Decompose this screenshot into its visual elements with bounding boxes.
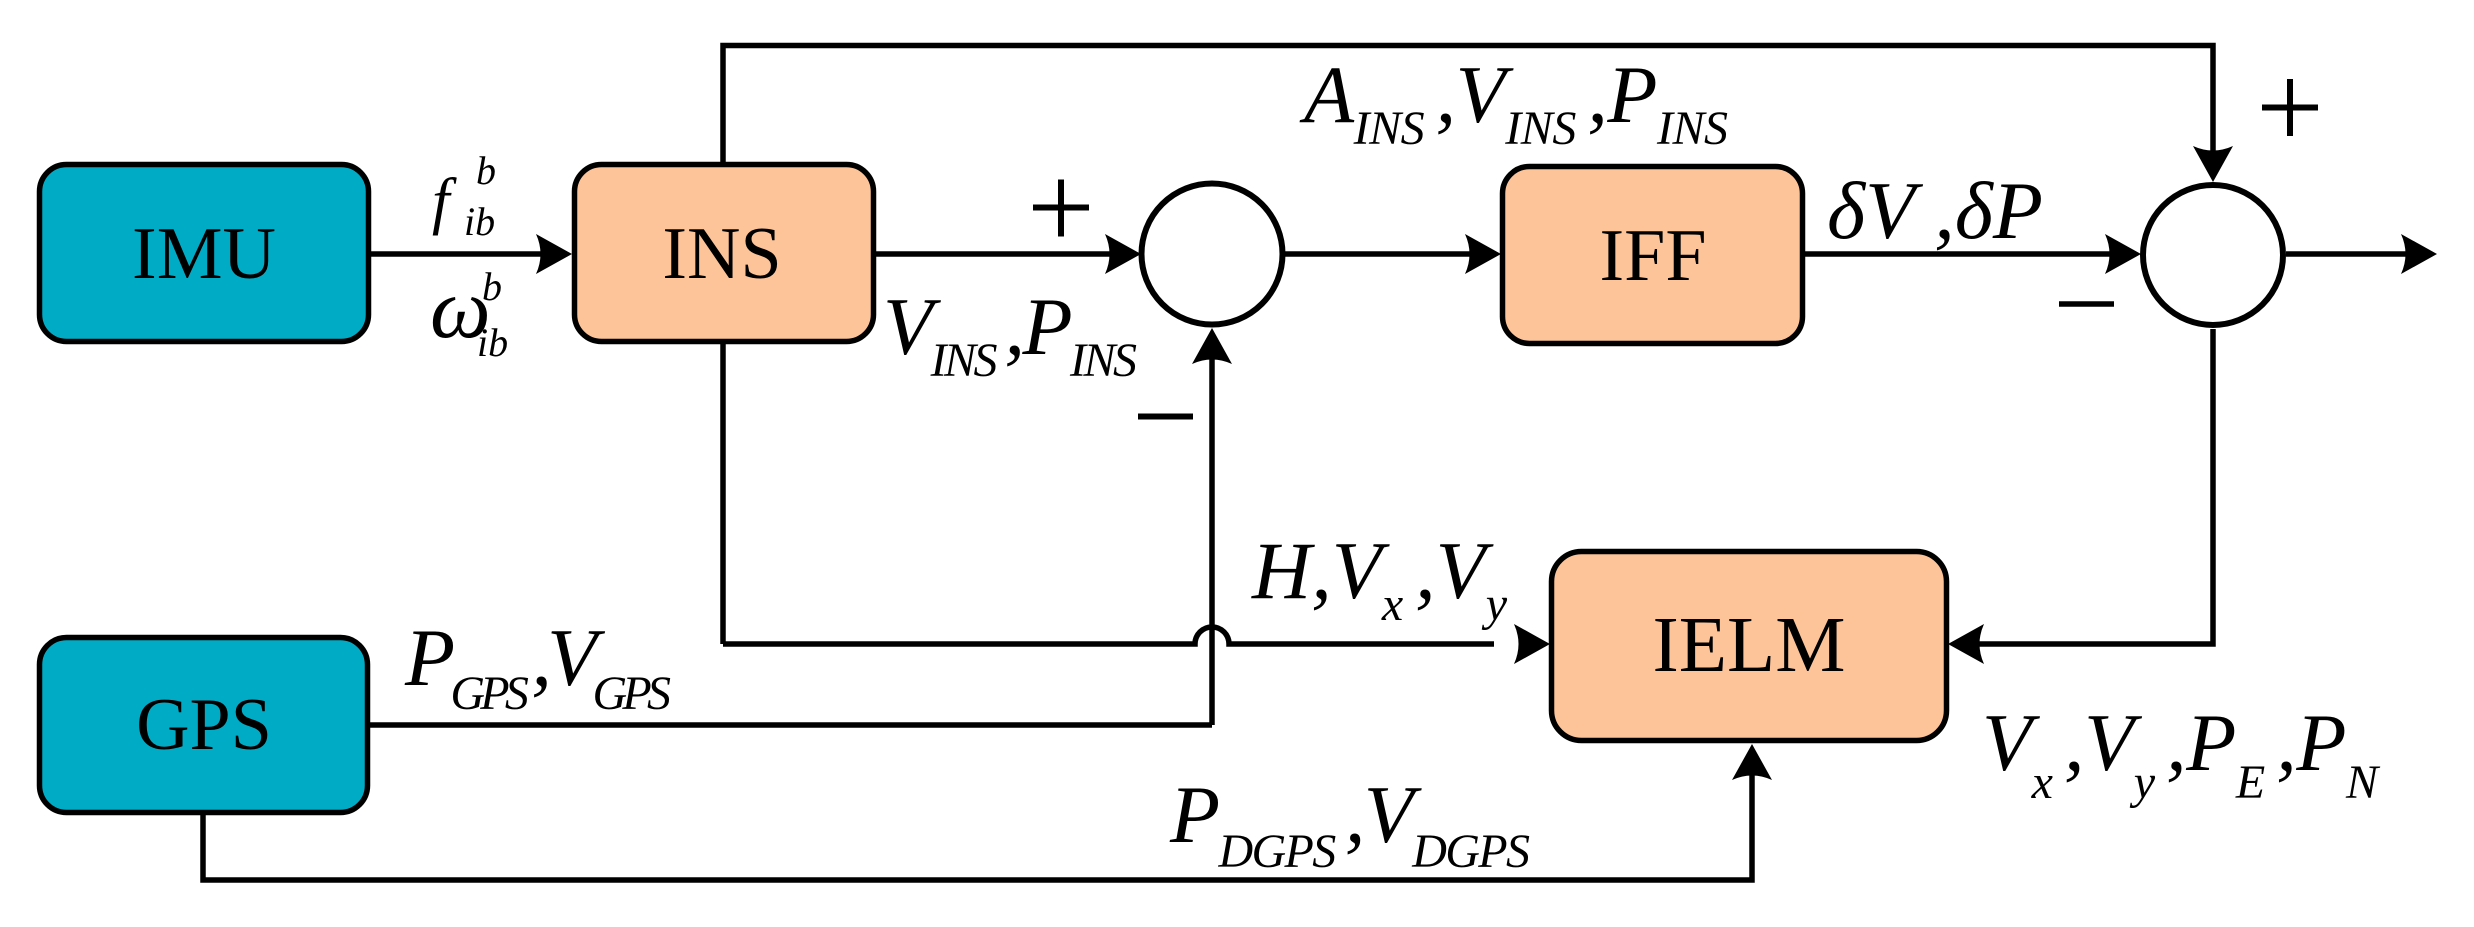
svg-text:H,Vx ,Vy: H,Vx ,Vy: [1251, 525, 1508, 631]
block GPS: [40, 638, 368, 813]
arrowhead into S1 bottom: [1192, 328, 1232, 364]
block IFF: [1503, 167, 1803, 344]
plus sign at S2: [2262, 79, 2318, 136]
arrowhead into summing node S2 left: [2105, 234, 2141, 274]
svg-text:IELM: IELM: [1652, 602, 1845, 689]
wire IFF to summing node S2: [1805, 251, 2112, 257]
arrowhead into IFF: [1465, 234, 1501, 274]
svg-text:Vx ,Vy ,PE ,PN: Vx ,Vy ,PE ,PN: [1982, 697, 2381, 809]
svg-text:ib: ib: [464, 199, 495, 244]
minus sign at S1: [1138, 414, 1193, 420]
svg-text:PGPS ,VGPS: PGPS ,VGPS: [404, 612, 671, 720]
wire IMU to INS: [371, 251, 545, 257]
plus sign at S1: [1033, 180, 1089, 237]
block IELM: [1552, 552, 1947, 741]
block INS: [575, 165, 874, 342]
wire INS top feedback to S2 top: [723, 46, 2213, 164]
wire INS to summing node S1: [876, 251, 1112, 257]
svg-text:IFF: IFF: [1600, 215, 1707, 297]
label V_INS, P_INS: [883, 281, 1137, 387]
svg-text:ib: ib: [477, 320, 508, 365]
wire GPS bottom to IELM bottom: [203, 771, 1752, 880]
arrowhead into S2 top: [2193, 146, 2233, 182]
label P_GPS, V_GPS: [404, 612, 671, 720]
svg-text:b: b: [476, 148, 496, 193]
svg-text:VINS ,PINS: VINS ,PINS: [883, 281, 1137, 387]
wire S1 to IFF: [1285, 251, 1472, 257]
arrowhead into IELM right: [1948, 624, 1984, 664]
svg-text:f: f: [432, 166, 457, 236]
label omega_ib^b: [430, 260, 508, 365]
wire INS bottom to IELM left (with hop over vertical wire): [723, 343, 1494, 644]
wire S2 bottom to IELM right: [1977, 329, 2213, 644]
summing node S2: [2143, 185, 2283, 325]
arrowhead into IELM bottom: [1732, 744, 1772, 780]
wire GPS to S1 bottom (minus input): [370, 356, 1212, 725]
arrowhead output: [2401, 234, 2437, 274]
svg-text:b: b: [482, 264, 502, 309]
svg-text:AINS ,VINS ,PINS: AINS ,VINS ,PINS: [1299, 49, 1728, 155]
svg-text:δV ,δP: δV ,δP: [1827, 165, 2043, 256]
svg-text:INS: INS: [662, 213, 781, 295]
summing node S1: [1142, 184, 1283, 325]
wire S2 to output: [2286, 251, 2410, 257]
arrowhead into IELM left: [1514, 624, 1550, 664]
svg-text:IMU: IMU: [132, 213, 276, 295]
block IMU: [40, 165, 369, 342]
svg-text:GPS: GPS: [136, 684, 272, 766]
arrowhead into summing node S1: [1105, 234, 1141, 274]
label P_DGPS, V_DGPS: [1169, 769, 1530, 878]
label H, V_x, V_y: [1251, 525, 1508, 631]
label dV, dP: [1827, 165, 2043, 256]
label V_x, V_y, P_E, P_N: [1982, 697, 2381, 809]
minus sign at S2: [2059, 301, 2114, 307]
label f_ib^b: [432, 148, 496, 244]
label A_INS, V_INS, P_INS: [1299, 49, 1728, 155]
arrowhead into INS: [536, 234, 572, 274]
svg-text:PDGPS ,VDGPS: PDGPS ,VDGPS: [1169, 769, 1530, 878]
